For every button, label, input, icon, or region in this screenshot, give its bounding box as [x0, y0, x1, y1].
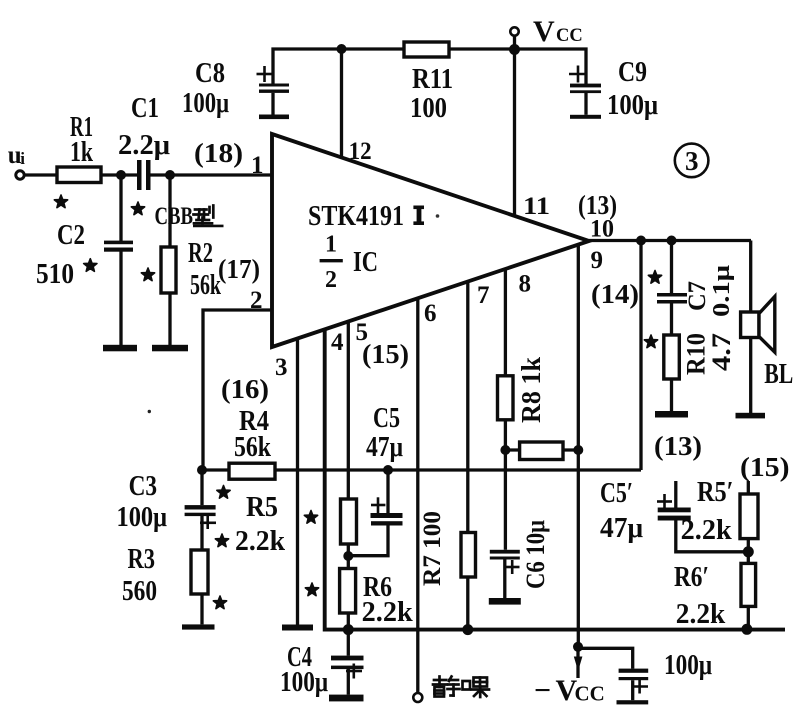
svg-text:C7: C7 — [684, 281, 711, 311]
svg-text:2.2k: 2.2k — [235, 526, 285, 557]
svg-text:47μ: 47μ — [600, 513, 643, 544]
svg-text:(15): (15) — [362, 339, 409, 369]
svg-text:1: 1 — [251, 152, 264, 179]
svg-text:8: 8 — [519, 271, 532, 298]
svg-text:560: 560 — [122, 576, 157, 607]
svg-text:100μ: 100μ — [664, 650, 712, 681]
svg-text:9: 9 — [591, 247, 604, 274]
svg-text:56k: 56k — [234, 432, 271, 463]
svg-text:−: − — [534, 674, 551, 707]
svg-text:100μ: 100μ — [182, 88, 229, 119]
svg-text:3: 3 — [275, 354, 288, 381]
svg-text:R6′: R6′ — [674, 562, 709, 593]
svg-text:STK4191: STK4191 — [308, 201, 404, 232]
svg-text:R5: R5 — [246, 492, 278, 523]
svg-text:V: V — [533, 15, 555, 48]
svg-text:(16): (16) — [221, 374, 269, 404]
svg-text:C5: C5 — [373, 403, 400, 434]
svg-text:R8 1k: R8 1k — [516, 357, 546, 423]
svg-text:2: 2 — [250, 287, 263, 314]
svg-text:R11: R11 — [412, 64, 453, 95]
svg-text:C6 10μ: C6 10μ — [521, 520, 550, 589]
svg-text:i: i — [20, 149, 25, 168]
svg-text:(13): (13) — [654, 431, 702, 461]
svg-text:56k: 56k — [190, 270, 221, 301]
svg-text:IC: IC — [353, 247, 378, 278]
svg-text:C1: C1 — [131, 93, 159, 124]
svg-text:R2: R2 — [188, 238, 213, 269]
svg-text:(15): (15) — [740, 452, 790, 482]
svg-text:47μ: 47μ — [366, 432, 403, 463]
svg-text:BL: BL — [764, 359, 793, 390]
svg-text:2.2k: 2.2k — [676, 599, 726, 630]
svg-text:4: 4 — [331, 329, 344, 356]
svg-text:(18): (18) — [194, 138, 243, 168]
svg-text:2: 2 — [325, 267, 337, 293]
svg-text:C5′: C5′ — [600, 478, 633, 509]
svg-text:CC: CC — [556, 26, 583, 46]
svg-text:(17): (17) — [218, 254, 260, 284]
svg-text:2.2μ: 2.2μ — [118, 130, 170, 161]
svg-text:(14): (14) — [591, 279, 639, 309]
svg-text:CBB: CBB — [155, 203, 194, 230]
svg-text:7: 7 — [477, 282, 490, 309]
svg-text:CC: CC — [575, 682, 605, 706]
svg-text:0.1μ: 0.1μ — [709, 265, 735, 317]
svg-text:C3: C3 — [129, 471, 158, 502]
svg-text:R7 100: R7 100 — [417, 511, 446, 586]
svg-text:R5′: R5′ — [697, 477, 734, 508]
svg-text:100: 100 — [410, 93, 447, 124]
svg-text:C2: C2 — [57, 220, 85, 251]
svg-text:2.2k: 2.2k — [681, 515, 732, 546]
svg-text:R3: R3 — [128, 544, 156, 575]
svg-text:C8: C8 — [195, 58, 225, 89]
svg-text:100μ: 100μ — [280, 667, 328, 698]
svg-text:12: 12 — [349, 138, 372, 165]
svg-text:100μ: 100μ — [607, 90, 658, 121]
svg-text:6: 6 — [424, 300, 437, 327]
svg-text:510: 510 — [36, 259, 74, 290]
svg-text:2.2k: 2.2k — [362, 597, 413, 628]
svg-text:(13): (13) — [578, 190, 617, 220]
svg-text:3: 3 — [685, 146, 699, 176]
svg-text:11: 11 — [523, 193, 550, 220]
svg-text:1: 1 — [325, 232, 337, 258]
svg-text:100μ: 100μ — [117, 502, 168, 533]
svg-text:4.7: 4.7 — [707, 333, 736, 371]
svg-text:C9: C9 — [618, 57, 647, 88]
svg-text:1k: 1k — [70, 137, 93, 168]
